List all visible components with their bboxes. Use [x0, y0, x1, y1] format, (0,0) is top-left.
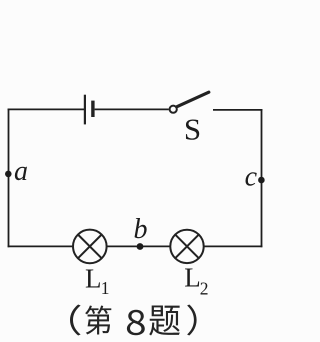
wire: top-right horizontal from switch to corner: [213, 109, 262, 111]
wire: left vertical side: [8, 109, 10, 248]
svg-text:L: L: [184, 263, 201, 293]
lamp L2: circle: [170, 230, 203, 263]
caption glyph: character 第: [85, 305, 111, 334]
battery: short thick plate (negative): [91, 101, 94, 117]
svg-text:S: S: [184, 111, 201, 146]
wire: top-left horizontal from corner to battery: [8, 108, 84, 110]
svg-text:2: 2: [200, 279, 209, 299]
caption glyph: digit 8: [127, 310, 145, 335]
wire: bottom between L1 and L2 through node b: [107, 245, 171, 247]
svg-text:b: b: [134, 214, 148, 245]
node c: junction dot on right wire: [258, 177, 265, 184]
node b: junction dot between lamps: [137, 243, 144, 250]
caption glyph: fullwidth right paren ）: [187, 304, 197, 335]
node a: junction dot on left wire: [5, 171, 12, 178]
lamp L1: circle: [73, 230, 107, 264]
svg-text:L: L: [85, 263, 102, 293]
lamp L2: cross X: [175, 235, 199, 259]
caption glyph: fullwidth left paren （: [70, 304, 81, 335]
battery: long plate (positive): [84, 95, 86, 125]
wire: right vertical side: [261, 109, 263, 247]
svg-text:c: c: [245, 162, 258, 193]
lamp L1: cross X: [78, 235, 102, 259]
switch S: pivot circle: [170, 106, 177, 113]
wire: bottom from left corner to lamp L1: [8, 245, 73, 247]
switch S: lever arm: [177, 92, 209, 106]
svg-text:1: 1: [101, 278, 110, 298]
wire: bottom from L2 to right corner: [204, 245, 263, 247]
svg-text:a: a: [14, 156, 28, 187]
caption glyph: character 题: [149, 305, 180, 335]
wire: top between battery and switch: [95, 108, 169, 110]
